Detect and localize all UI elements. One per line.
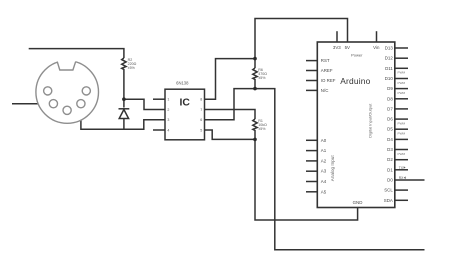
svg-text:D1: D1 xyxy=(387,167,393,172)
svg-text:D10: D10 xyxy=(385,76,394,81)
svg-text:SDA: SDA xyxy=(384,198,393,203)
svg-text:PWM: PWM xyxy=(398,121,406,125)
svg-text:A2: A2 xyxy=(321,158,327,163)
svg-text:3: 3 xyxy=(167,118,169,122)
svg-text:D7: D7 xyxy=(387,106,393,111)
svg-text:7: 7 xyxy=(200,108,202,112)
svg-text:Analog Input: Analog Input xyxy=(330,155,335,182)
svg-text:A4: A4 xyxy=(321,179,327,184)
svg-text:PWM: PWM xyxy=(398,81,406,85)
svg-text:1: 1 xyxy=(167,98,169,102)
svg-text:±5%: ±5% xyxy=(258,127,266,131)
svg-text:D3: D3 xyxy=(387,147,393,152)
svg-text:GND: GND xyxy=(353,200,363,205)
svg-text:D4: D4 xyxy=(387,137,393,142)
svg-text:D2: D2 xyxy=(387,157,393,162)
svg-text:SCL: SCL xyxy=(384,188,393,193)
svg-text:±5%: ±5% xyxy=(258,76,266,80)
svg-text:Power: Power xyxy=(351,52,363,57)
svg-text:D5: D5 xyxy=(387,127,393,132)
svg-text:PWM: PWM xyxy=(398,71,406,75)
svg-text:D9: D9 xyxy=(387,86,393,91)
svg-text:D0: D0 xyxy=(387,178,393,183)
svg-text:IO REF: IO REF xyxy=(321,78,336,83)
svg-text:IC: IC xyxy=(179,98,190,109)
svg-text:N/C: N/C xyxy=(321,88,329,93)
svg-text:8: 8 xyxy=(200,98,202,102)
svg-text:PWM: PWM xyxy=(398,132,406,136)
svg-text:Digital Input/Output: Digital Input/Output xyxy=(368,103,373,138)
svg-text:3V3: 3V3 xyxy=(333,45,341,50)
svg-text:5V: 5V xyxy=(345,45,350,50)
svg-text:A5: A5 xyxy=(321,189,327,194)
svg-text:A0: A0 xyxy=(321,138,327,143)
svg-text:±5%: ±5% xyxy=(128,66,136,70)
svg-text:Arduino: Arduino xyxy=(340,76,370,86)
svg-text:RX: RX xyxy=(399,176,404,180)
svg-text:D6: D6 xyxy=(387,117,393,122)
svg-text:Vin: Vin xyxy=(373,45,380,50)
svg-text:2: 2 xyxy=(167,108,169,112)
svg-text:RST: RST xyxy=(321,58,330,63)
svg-text:D11: D11 xyxy=(385,66,393,71)
svg-text:6: 6 xyxy=(200,118,202,122)
svg-text:AREF: AREF xyxy=(321,68,333,73)
svg-text:PWM: PWM xyxy=(398,152,406,156)
svg-text:PWM: PWM xyxy=(398,91,406,95)
svg-text:5: 5 xyxy=(200,128,202,132)
svg-text:D12: D12 xyxy=(385,56,394,61)
svg-text:A3: A3 xyxy=(321,169,327,174)
svg-text:4: 4 xyxy=(167,128,169,132)
svg-text:D13: D13 xyxy=(385,46,394,51)
svg-text:6N138: 6N138 xyxy=(176,81,189,86)
svg-text:D8: D8 xyxy=(387,96,393,101)
svg-text:A1: A1 xyxy=(321,148,327,153)
